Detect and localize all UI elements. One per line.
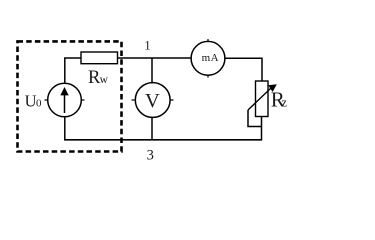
svg-text:3: 3 <box>147 147 154 163</box>
svg-text:w: w <box>100 74 109 86</box>
svg-text:z: z <box>281 96 287 110</box>
svg-text:mA: mA <box>202 52 219 64</box>
svg-text:0: 0 <box>36 97 42 109</box>
svg-text:1: 1 <box>144 38 150 52</box>
svg-text:U: U <box>25 92 37 111</box>
svg-text:V: V <box>145 90 160 112</box>
